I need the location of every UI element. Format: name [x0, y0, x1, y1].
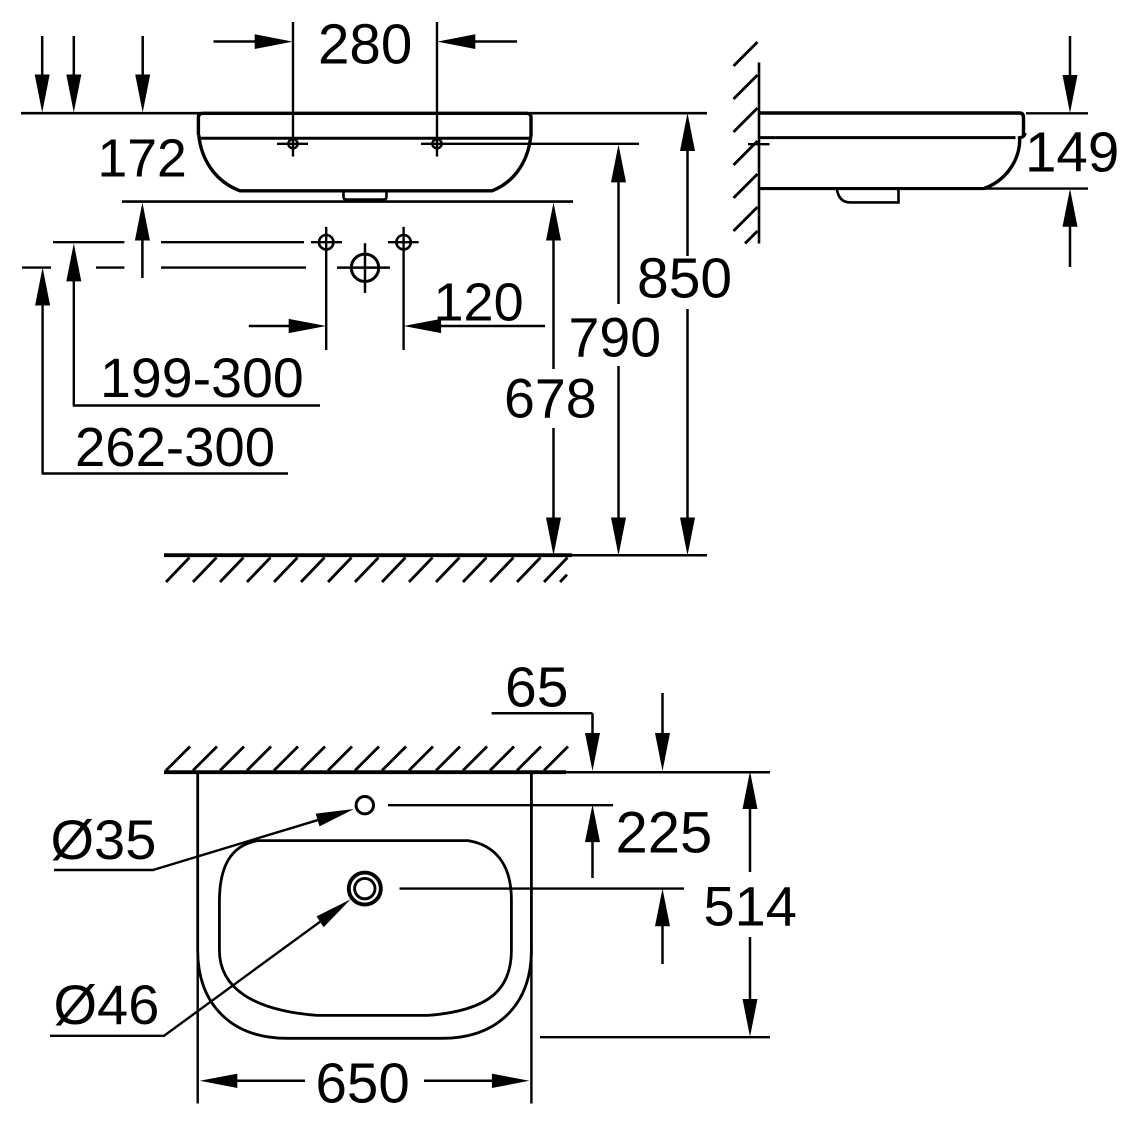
svg-text:678: 678 [504, 368, 597, 430]
svg-text:225: 225 [616, 801, 713, 866]
svg-text:Ø35: Ø35 [51, 808, 157, 871]
svg-text:514: 514 [704, 875, 797, 938]
svg-text:650: 650 [316, 1052, 410, 1115]
svg-text:65: 65 [505, 656, 568, 720]
svg-text:120: 120 [434, 273, 524, 333]
svg-text:172: 172 [98, 130, 187, 189]
svg-text:280: 280 [318, 13, 412, 76]
svg-text:262-300: 262-300 [75, 417, 275, 478]
svg-text:790: 790 [569, 307, 662, 369]
svg-text:149: 149 [1025, 121, 1119, 184]
svg-text:Ø46: Ø46 [54, 973, 160, 1036]
svg-text:199-300: 199-300 [100, 347, 304, 409]
svg-text:850: 850 [637, 247, 732, 311]
